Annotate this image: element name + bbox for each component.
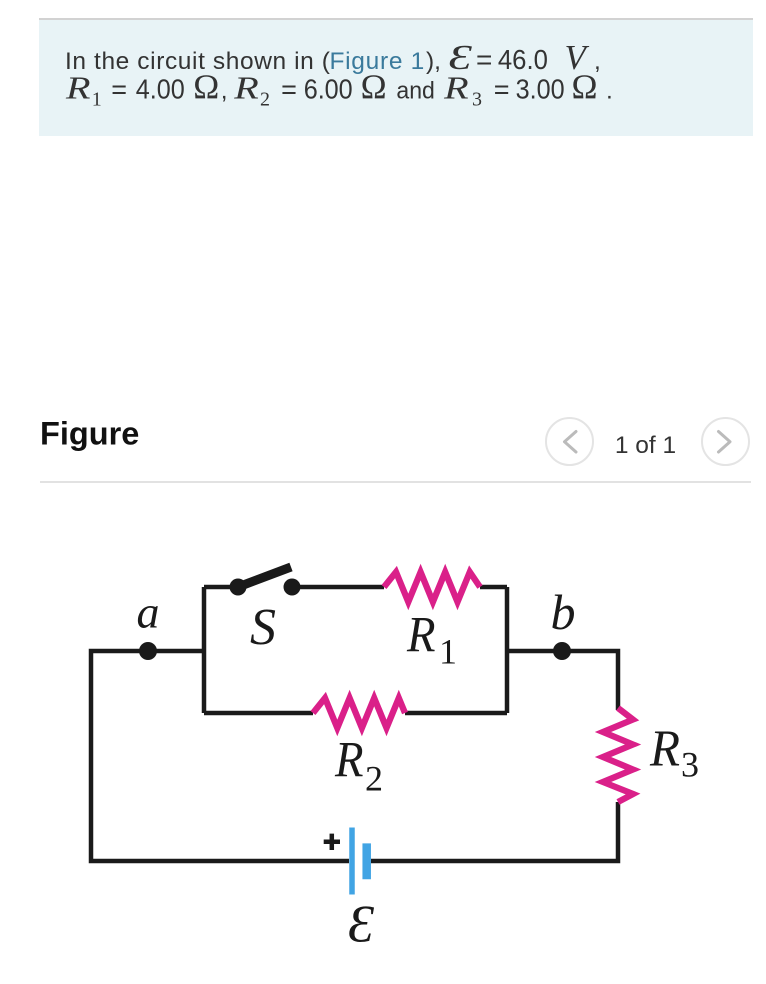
svg-text:=: = [476, 44, 492, 75]
svg-text:R: R [334, 733, 363, 789]
svg-text:2: 2 [365, 759, 383, 799]
svg-text:3: 3 [681, 744, 699, 784]
svg-text:R: R [649, 721, 680, 778]
svg-text:S: S [250, 599, 276, 656]
svg-text:1 of 1: 1 of 1 [615, 432, 676, 459]
svg-text:=: = [281, 75, 297, 105]
svg-text:Ɛ: Ɛ [348, 896, 375, 954]
svg-text:Ω: Ω [572, 68, 598, 107]
svg-text:.: . [606, 78, 613, 105]
svg-text:and: and [396, 78, 435, 105]
svg-text:Ω: Ω [193, 68, 219, 107]
svg-text:,: , [221, 78, 228, 105]
svg-text:1: 1 [92, 89, 102, 111]
svg-text:R: R [233, 71, 259, 106]
svg-text:Figure: Figure [40, 415, 139, 451]
svg-text:46.0: 46.0 [498, 44, 548, 75]
svg-text:R: R [443, 71, 469, 106]
svg-text:=: = [494, 75, 510, 105]
svg-text:),: ), [426, 48, 441, 75]
svg-text:R: R [65, 71, 91, 106]
svg-text:6.00: 6.00 [304, 74, 353, 105]
svg-text:3.00: 3.00 [516, 74, 565, 105]
svg-text:2: 2 [260, 89, 270, 111]
svg-text:1: 1 [439, 632, 457, 672]
svg-text:R: R [406, 608, 435, 664]
svg-text:b: b [551, 584, 576, 640]
svg-text:3: 3 [472, 89, 482, 111]
svg-text:=: = [111, 75, 127, 105]
svg-text:Ω: Ω [361, 68, 387, 107]
svg-text:4.00: 4.00 [136, 74, 185, 105]
svg-text:a: a [137, 587, 160, 638]
